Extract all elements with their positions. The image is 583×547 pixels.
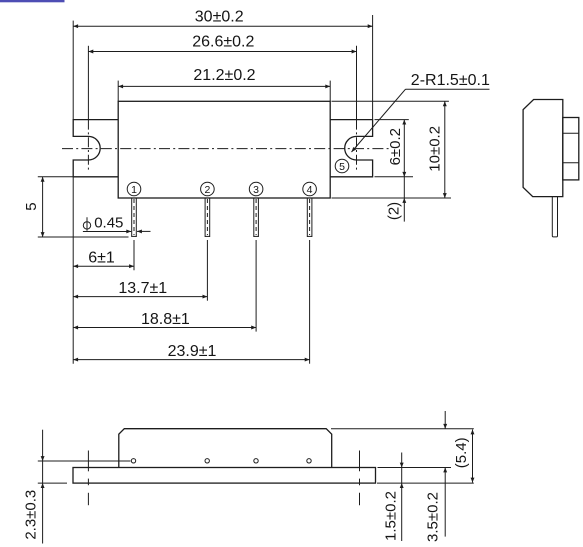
svg-text:0.45: 0.45 <box>94 215 123 232</box>
svg-text:(2): (2) <box>385 202 402 220</box>
dimension 18.8±1 <box>73 311 256 330</box>
dimension φ0.45 (lead diameter) <box>83 215 151 234</box>
dimension 23.9±1 <box>73 343 309 362</box>
cap top extension line <box>331 428 474 430</box>
dimension 1.5±0.2 <box>383 453 404 542</box>
dimension (5.4) <box>453 430 474 483</box>
svg-text:5: 5 <box>339 161 345 173</box>
left mounting hole centerline and 26.6 extension <box>87 46 89 170</box>
dimension 6±0.2 <box>375 120 414 177</box>
front view cap outline <box>119 429 332 468</box>
right mounting hole centerline and 26.6 extension <box>356 46 358 170</box>
pin 5 number circle <box>335 159 349 173</box>
top view left flange with mounting notch <box>73 120 118 177</box>
dimension 5 (pin length) <box>23 177 129 237</box>
svg-text:26.6±0.2: 26.6±0.2 <box>192 33 254 50</box>
pin 4 lead <box>307 198 312 364</box>
left datum extension line below flange <box>72 177 74 364</box>
pin 1 number circle <box>127 182 141 196</box>
svg-text:3.5±0.2: 3.5±0.2 <box>425 492 442 542</box>
top view body outline <box>118 101 330 198</box>
side view pin <box>552 197 557 237</box>
pin 1 lead <box>132 198 137 270</box>
pin 2 number circle <box>201 182 215 196</box>
pin 3 lead <box>254 198 259 332</box>
plate bottom right extension line <box>377 482 474 484</box>
svg-text:2-R1.5±0.1: 2-R1.5±0.1 <box>411 72 490 89</box>
front view right mounting hole centerline <box>359 451 361 506</box>
dimension 13.7±1 <box>73 280 207 299</box>
side view lead frame protrusions <box>563 118 579 180</box>
svg-text:4: 4 <box>307 184 313 196</box>
svg-text:18.8±1: 18.8±1 <box>141 311 190 328</box>
blue partial hyperlink bar at top-left <box>0 0 65 2</box>
dimension 26.6±0.2 <box>88 33 356 53</box>
svg-text:(5.4): (5.4) <box>453 437 470 468</box>
pin 3 number circle <box>249 182 263 196</box>
horizontal centerline <box>62 148 389 150</box>
pin 2 lead <box>205 198 210 301</box>
svg-text:2.3±0.3: 2.3±0.3 <box>23 490 40 540</box>
front view pin hole circles <box>131 459 311 463</box>
dimension 10±0.2 <box>332 101 452 198</box>
svg-text:30±0.2: 30±0.2 <box>195 8 244 25</box>
dimension 6±1 <box>73 250 134 269</box>
svg-text:6±0.2: 6±0.2 <box>387 128 404 165</box>
dimension 21.2±0.2 <box>118 67 330 101</box>
side view body outline <box>523 100 563 197</box>
svg-text:6±1: 6±1 <box>88 250 115 267</box>
dimension 3.5±0.2 <box>425 411 448 542</box>
svg-text:13.7±1: 13.7±1 <box>118 280 167 297</box>
svg-text:5: 5 <box>23 202 40 210</box>
front view left mounting hole centerline <box>87 451 89 506</box>
dimension 30±0.2 <box>73 8 372 119</box>
leader 2-R1.5±0.1 <box>352 72 490 152</box>
svg-text:10±0.2: 10±0.2 <box>427 126 444 172</box>
plate top right extension line <box>378 467 452 469</box>
dimension 2.3±0.3 <box>23 430 131 544</box>
svg-text:3: 3 <box>253 184 259 196</box>
svg-text:1: 1 <box>131 184 137 196</box>
front view base plate <box>73 468 376 484</box>
top view right flange with mounting notch <box>330 120 372 177</box>
svg-text:23.9±1: 23.9±1 <box>168 343 217 360</box>
svg-text:2: 2 <box>204 184 210 196</box>
svg-text:1.5±0.2: 1.5±0.2 <box>383 491 400 541</box>
pin 4 number circle <box>303 182 317 196</box>
dimension (2) <box>385 177 406 222</box>
svg-text:21.2±0.2: 21.2±0.2 <box>193 67 255 84</box>
